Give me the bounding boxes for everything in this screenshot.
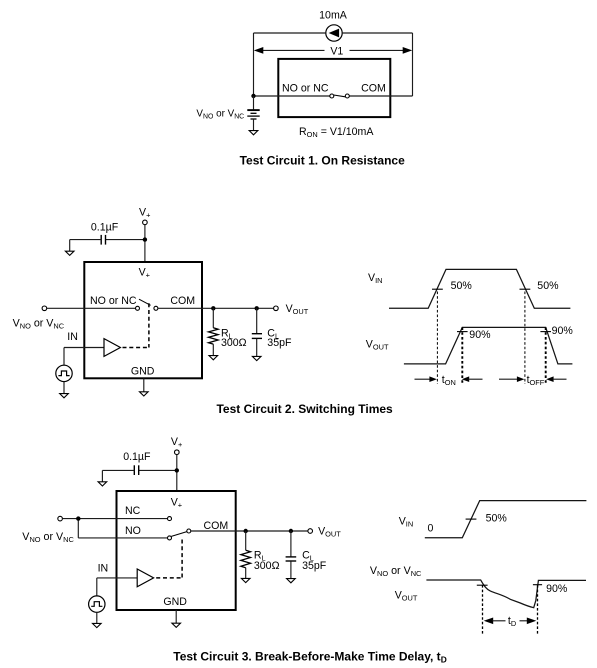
svg-text:V+: V+	[139, 206, 150, 219]
svg-text:VNO or VNC: VNO or VNC	[13, 317, 65, 330]
junction dot at CL (circuit 2)	[255, 306, 259, 310]
svg-text:NC: NC	[125, 505, 141, 517]
capacitor CL 35pF (circuit 3)	[286, 557, 297, 561]
svg-text:0.1µF: 0.1µF	[91, 221, 119, 233]
svg-text:VOUT: VOUT	[318, 526, 341, 539]
switch box U1 (Test Circuit 1)	[278, 59, 390, 117]
wire: top loop from node A up and across to COM side	[254, 33, 413, 96]
terminal VNO/VNC input (circuit 3)	[58, 516, 63, 521]
wire: pulse source to buffer input (circuit 3)	[97, 578, 137, 596]
buffer driver (triangle, circuit 3)	[137, 569, 153, 587]
pulse generator source (circuit 2)	[56, 365, 72, 381]
bold dashed line at VOUT falling 90%	[545, 327, 547, 384]
dashed control line (circuit 3)	[156, 540, 182, 578]
svg-text:VNO or VNC: VNO or VNC	[370, 565, 422, 578]
90% tick on VOUT rising edge	[457, 331, 468, 333]
svg-text:VOUT: VOUT	[286, 303, 309, 316]
ground (RL, circuit 3)	[241, 578, 250, 582]
terminal V+ (open circle)	[143, 220, 148, 225]
wire: GND pin to ground (circuit 2)	[143, 378, 145, 392]
svg-text:COM: COM	[204, 520, 229, 532]
tON dimension arrows	[415, 376, 483, 382]
wire: COM to VOUT (circuit 2)	[158, 307, 274, 309]
junction dot at V+ node (circuit 3)	[175, 468, 179, 472]
ground (bypass cap, circuit 2)	[65, 251, 74, 255]
terminal VOUT (circuit 3)	[308, 529, 313, 534]
wire: V+ terminal to box	[144, 225, 146, 262]
svg-text:tD: tD	[508, 615, 516, 628]
wire: capacitor to ground stub (circuit 3)	[102, 470, 134, 481]
svg-text:IN: IN	[98, 563, 109, 575]
dashed line at 50% falling point	[524, 292, 526, 385]
switch S1 (open contacts with lever)	[330, 94, 350, 98]
svg-text:NO or NC: NO or NC	[90, 295, 137, 307]
wire: capacitor to ground stub	[70, 240, 102, 252]
wire: COM to VOUT (circuit 3)	[191, 530, 308, 532]
wire: input terminal to NC contact	[62, 518, 167, 520]
wire: junction to RL (circuit 3)	[245, 531, 247, 550]
svg-text:NO or NC: NO or NC	[282, 83, 329, 95]
svg-text:GND: GND	[131, 366, 155, 378]
wire: pulse source to ground (circuit 3)	[96, 612, 98, 623]
NC contact (open circle)	[168, 517, 172, 521]
svg-text:Test Circuit 1. On Resistance: Test Circuit 1. On Resistance	[240, 154, 405, 168]
pulse generator source (circuit 3)	[89, 596, 105, 612]
svg-text:VOUT: VOUT	[366, 339, 389, 352]
svg-text:COM: COM	[170, 295, 195, 307]
wire: V+ node to bypass capacitor (circuit 3)	[139, 469, 177, 471]
battery V_NO/V_NC	[247, 96, 259, 131]
90% tick at recovery	[533, 584, 542, 586]
resistor RL 300ohm (circuit 2)	[209, 328, 219, 344]
junction dot at CL (circuit 3)	[289, 529, 293, 533]
wire: input terminal to switch contact (circuit 2)	[47, 307, 136, 309]
50% tick on VIN falling edge	[520, 288, 531, 290]
svg-text:NO: NO	[125, 525, 141, 537]
ground (pulse source, circuit 3)	[93, 623, 102, 627]
junction dot at RL (circuit 2)	[211, 306, 215, 310]
svg-text:tOFF: tOFF	[527, 374, 545, 387]
terminal VOUT (circuit 2)	[274, 306, 279, 311]
wire: CL to ground (circuit 3)	[290, 561, 292, 578]
wire: junction down to NO branch	[77, 519, 79, 538]
switch box U1 (Test Circuit 3)	[117, 491, 236, 610]
bold dashed line at VOUT rising 90%	[461, 327, 463, 384]
VOUT waveform trace (circuit 2)	[404, 327, 573, 364]
NO contact (open circle)	[168, 536, 172, 540]
50% tick on VIN (waveform 3)	[466, 518, 477, 520]
buffer driver (triangle, circuit 2)	[104, 339, 120, 357]
VIN waveform trace (circuit 2)	[389, 269, 570, 308]
svg-text:90%: 90%	[546, 583, 568, 595]
terminal VNO/VNC input (open circle)	[42, 306, 47, 311]
wire: junction to CL (circuit 2)	[256, 308, 258, 333]
wire: node A to switch NO/NC contact	[254, 95, 331, 97]
ground (CL, circuit 2)	[252, 356, 261, 360]
ground (bypass cap, circuit 3)	[98, 482, 107, 486]
svg-text:35pF: 35pF	[267, 337, 292, 349]
50% tick on VIN rising edge	[432, 288, 443, 290]
ground (battery)	[249, 131, 258, 135]
switch box U1 (Test Circuit 2)	[84, 262, 202, 378]
wire: GND pin to ground (circuit 3)	[175, 610, 177, 623]
dimension arrow V1	[254, 47, 412, 54]
ground (pulse source, circuit 2)	[60, 394, 69, 398]
svg-text:Test Circuit 3. Break-Before-M: Test Circuit 3. Break-Before-Make Time D…	[173, 649, 447, 664]
wire: V+ terminal to box (circuit 3)	[176, 455, 178, 492]
dashed control line from IN buffer to switch (circuit 2)	[123, 303, 149, 347]
svg-text:Test Circuit 2. Switching Time: Test Circuit 2. Switching Times	[216, 402, 393, 416]
90% tick at dip start	[477, 584, 488, 586]
wire: junction to RL (circuit 2)	[212, 308, 214, 328]
ground (GND pin, circuit 2)	[140, 392, 149, 396]
svg-text:VOUT: VOUT	[395, 590, 418, 603]
wire: RL to ground (circuit 2)	[212, 344, 214, 356]
svg-text:50%: 50%	[486, 513, 508, 525]
svg-text:0: 0	[428, 522, 434, 534]
dashed line at dip start	[482, 585, 484, 634]
svg-text:VIN: VIN	[368, 272, 382, 285]
capacitor CL 35pF (circuit 2)	[252, 334, 262, 339]
wire: junction to CL (circuit 3)	[290, 531, 292, 557]
VOUT waveform trace with dip (circuit 3)	[426, 580, 586, 608]
svg-text:V+: V+	[171, 436, 182, 449]
svg-text:GND: GND	[163, 596, 187, 608]
svg-text:50%: 50%	[451, 280, 473, 292]
wire: pulse source to ground (circuit 2)	[63, 382, 65, 394]
capacitor C1 0.1uF (circuit 3)	[134, 465, 138, 475]
svg-text:VIN: VIN	[399, 515, 413, 528]
svg-text:VNO or VNC: VNO or VNC	[196, 109, 244, 121]
svg-text:VNO or VNC: VNO or VNC	[22, 531, 74, 544]
wire: V+ node to bypass capacitor	[106, 239, 145, 241]
terminal V+ (open circle, circuit 3)	[175, 450, 180, 455]
ground (GND pin, circuit 3)	[172, 623, 181, 627]
ground (CL, circuit 3)	[287, 579, 296, 583]
wire: pulse source to buffer input (circuit 2)	[64, 348, 104, 366]
capacitor C1 0.1uF	[101, 235, 105, 245]
svg-text:V+: V+	[171, 496, 182, 509]
VIN waveform trace (circuit 3)	[425, 501, 587, 538]
dashed line at recovery	[537, 585, 539, 634]
tOFF dimension arrows	[499, 376, 567, 382]
svg-text:0.1µF: 0.1µF	[123, 451, 151, 463]
switch pole contact (open circle)	[187, 529, 191, 533]
wire: CL to ground (circuit 2)	[256, 339, 258, 357]
tD dimension arrows	[484, 618, 537, 625]
svg-text:300Ω: 300Ω	[221, 337, 247, 349]
switch S1 contacts and lever (circuit 2)	[136, 299, 158, 310]
svg-text:V+: V+	[139, 266, 150, 279]
svg-text:IN: IN	[67, 331, 78, 343]
ground (RL, circuit 2)	[209, 356, 218, 360]
wire: RL to ground (circuit 3)	[245, 568, 247, 579]
wire: switch COM contact to right loop	[349, 95, 391, 97]
svg-text:V1: V1	[330, 46, 343, 58]
svg-text:300Ω: 300Ω	[254, 560, 280, 572]
90% tick on VOUT falling edge	[540, 331, 551, 333]
svg-text:90%: 90%	[469, 329, 491, 341]
current source I1 (circle with left arrow)	[326, 25, 342, 41]
svg-text:90%: 90%	[552, 325, 574, 337]
svg-text:50%: 50%	[537, 280, 559, 292]
junction dot at RL (circuit 3)	[244, 529, 248, 533]
svg-text:RON = V1/10mA: RON = V1/10mA	[299, 126, 374, 139]
resistor RL 300ohm (circuit 3)	[241, 550, 251, 568]
svg-text:tON: tON	[442, 374, 456, 387]
node A (junction dot)	[251, 94, 255, 98]
svg-text:35pF: 35pF	[302, 560, 327, 572]
dashed line at 50% rising point	[436, 292, 438, 385]
wire: NO branch to NO contact	[78, 537, 167, 539]
svg-text:10mA: 10mA	[319, 10, 348, 22]
svg-text:COM: COM	[361, 83, 386, 95]
junction dot at V+ node (circuit 2)	[143, 237, 147, 241]
junction dot (input, circuit 3)	[76, 516, 80, 520]
switch lever (NO to pole)	[171, 532, 187, 537]
